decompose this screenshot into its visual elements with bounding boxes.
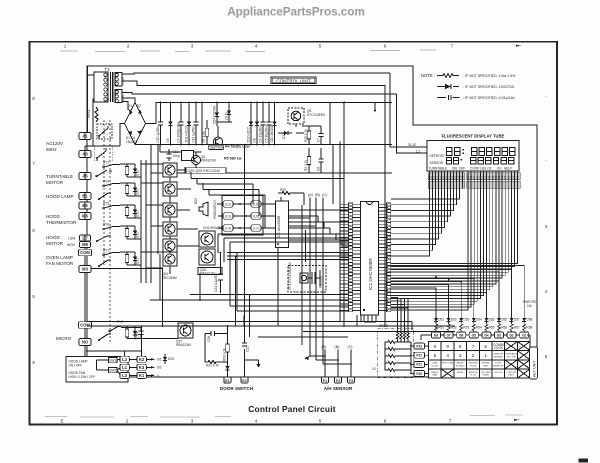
svg-text:D12: D12 [282, 133, 286, 139]
terminal NO [79, 338, 91, 345]
tube pin number labels [428, 175, 520, 179]
svg-text:CLOCK: CLOCK [495, 372, 503, 374]
svg-text:TIME: TIME [432, 363, 438, 365]
switch SW2 [109, 367, 118, 372]
svg-text:DTC114EEK: DTC114EEK [307, 113, 326, 117]
svg-text:IC1 DAC7808R: IC1 DAC7808R [368, 258, 373, 290]
relay contact micro [99, 334, 111, 340]
svg-text:D58: D58 [526, 318, 532, 322]
page border frame [30, 42, 558, 425]
terminal E2 [241, 377, 248, 383]
wire A3 to transformer bottom [85, 99, 94, 150]
svg-text:VRS1: VRS1 [87, 109, 91, 118]
svg-text:P22: P22 [416, 354, 422, 358]
capacitor C5 [265, 103, 272, 145]
svg-text:PW CLK: PW CLK [319, 275, 323, 288]
diode D26 on E1 line [225, 366, 229, 370]
svg-text:HELP: HELP [508, 375, 514, 377]
scan artifact dashes top [60, 50, 436, 52]
svg-text:FLUORESCENT DISPLAY TUBE: FLUORESCENT DISPLAY TUBE [442, 134, 505, 139]
wire RY6 row [115, 226, 141, 239]
svg-text:R58: R58 [526, 326, 532, 330]
frame ruler tick marks right [545, 94, 548, 359]
svg-text:HOOD: HOOD [46, 235, 60, 240]
resistor at RY5 row [125, 205, 129, 218]
key unit label [530, 347, 538, 379]
capacitor C22 on E2 line [242, 145, 250, 377]
terminal A3 [79, 150, 91, 157]
svg-text:D2: D2 [137, 104, 141, 108]
svg-text:F1: F1 [323, 379, 327, 383]
diode D19 [133, 164, 140, 177]
svg-text:10: 10 [372, 367, 376, 371]
switch SW1 [109, 357, 118, 362]
resistor R9 [304, 148, 311, 173]
svg-text:R53: R53 [463, 326, 469, 330]
capacitor C28 [205, 331, 221, 342]
svg-text:6: 6 [484, 344, 487, 349]
svg-text:2: 2 [472, 353, 475, 358]
svg-text:COOK: COOK [495, 363, 502, 365]
door loop wires [205, 326, 228, 377]
resistor at RY4 row [125, 183, 129, 196]
diode D23 [133, 252, 140, 265]
svg-text:E2: E2 [242, 379, 246, 383]
control unit label box [271, 77, 316, 84]
svg-text:A/H SENSOR: A/H SENSOR [324, 386, 353, 391]
relay contact hood lamp [99, 193, 111, 199]
svg-text:Q20-Q25 KRC101M: Q20-Q25 KRC101M [188, 169, 220, 173]
transistor Q28 [199, 226, 225, 247]
svg-text:KRA101M: KRA101M [200, 272, 215, 276]
svg-text:G3: G3 [497, 334, 501, 338]
svg-text:: IF NOT SPECIFIED, 1SS270A: : IF NOT SPECIFIED, 1SS270A [463, 85, 514, 89]
key matrix grid [429, 342, 531, 379]
buzzer BZ2 [194, 198, 217, 219]
svg-text:D54: D54 [476, 318, 482, 322]
terminal A5 [79, 172, 91, 179]
svg-text:C11 1µ/50v: C11 1µ/50v [192, 126, 196, 143]
svg-text:RY5: RY5 [103, 202, 109, 206]
svg-text:D22: D22 [136, 232, 140, 238]
switch terminal L1 [120, 364, 130, 370]
svg-text:CF1 CST4.00MGW: CF1 CST4.00MGW [288, 262, 292, 290]
svg-text:(L6): (L6) [253, 214, 259, 218]
svg-text:D10 1N4003: D10 1N4003 [270, 124, 274, 142]
svg-text:ZD4 1S270A: ZD4 1S270A [213, 105, 217, 124]
svg-text:SW1: SW1 [109, 359, 116, 363]
wire A1 to transformer [85, 66, 94, 132]
svg-text:COM: COM [80, 323, 90, 328]
svg-text:COM: COM [80, 250, 90, 255]
terminal B3 [79, 202, 91, 209]
svg-text:BAR: BAR [433, 374, 438, 377]
resistor at RY6 row [125, 226, 129, 239]
wires P terminals left [421, 335, 432, 340]
svg-text:0: 0 [157, 374, 159, 378]
diode D9 [166, 103, 173, 145]
svg-text:PLUS: PLUS [470, 375, 476, 377]
svg-text:9: 9 [446, 344, 449, 349]
svg-text:R9 4.7k: R9 4.7k [304, 160, 308, 171]
svg-text:AGE: AGE [483, 365, 488, 368]
svg-text:KEY UNIT: KEY UNIT [533, 360, 537, 377]
svg-text:(L7): (L7) [253, 226, 259, 230]
terminal F3 [348, 377, 355, 383]
svg-text:L1: L1 [122, 365, 128, 370]
diode D25 [163, 354, 174, 364]
wires right pins to CR&B verticals [391, 298, 408, 309]
svg-text:HOOD: HOOD [46, 214, 60, 219]
diode D22 [133, 226, 140, 239]
terminal A1 [79, 132, 91, 139]
svg-text:G6: G6 [459, 334, 463, 338]
terminal M5 [79, 212, 91, 219]
svg-text:D52: D52 [451, 318, 457, 322]
capacitor C9 electrolytic [177, 103, 184, 145]
frame ruler tick marks left [32, 96, 35, 365]
svg-text:C4 13µ/20v: C4 13µ/20v [259, 126, 263, 143]
svg-text:KRC243M: KRC243M [162, 276, 177, 280]
svg-text:R20 4.7k: R20 4.7k [222, 348, 226, 361]
svg-text:FAN MOTOR: FAN MOTOR [46, 261, 74, 266]
svg-text:C21 0.1µ/50v: C21 0.1µ/50v [214, 273, 218, 292]
terminal M3 [79, 265, 91, 272]
IC1 right pin numbers [379, 203, 391, 312]
svg-text:THERMISTOR: THERMISTOR [46, 220, 77, 225]
svg-text:REHEAT: REHEAT [494, 355, 503, 358]
resistor R22 micro row [125, 328, 129, 339]
svg-text:HELP: HELP [504, 167, 512, 171]
transistor Q3 KRA101M [182, 150, 216, 164]
capacitor C11 [192, 103, 199, 145]
svg-text:31,32: 31,32 [408, 143, 416, 147]
IC U1 IC1 DAC7808R body [361, 202, 379, 316]
transistor Q22 [163, 203, 177, 217]
svg-text:1,2: 1,2 [416, 150, 421, 154]
svg-text:BEVER-: BEVER- [482, 363, 490, 365]
connector L7 [251, 225, 261, 231]
svg-text:LOW: LOW [68, 237, 75, 241]
zener ZD2 [247, 103, 254, 145]
svg-text:M9: M9 [82, 242, 88, 247]
svg-text:DEFROST: DEFROST [430, 154, 445, 158]
svg-text:KITCHEN: KITCHEN [481, 372, 491, 374]
resonator CF1 CST4.00MGW [288, 262, 326, 292]
svg-text:R52: R52 [451, 326, 457, 330]
svg-text:C22: C22 [246, 346, 250, 352]
svg-text:4: 4 [446, 353, 449, 358]
switch terminal K2 [137, 356, 147, 362]
svg-text:PIZZA: PIZZA [470, 365, 477, 368]
vertical wire x344 [330, 103, 375, 205]
terminal COM2 [79, 322, 92, 329]
label Q20-Q25 KRC101M [186, 168, 226, 174]
resistor R10 [304, 126, 311, 144]
svg-text:K2: K2 [139, 357, 145, 362]
stub diode near E2 [245, 360, 261, 368]
resistor R30 above IC2 [278, 188, 294, 195]
wire transformer secondary to filament rails [122, 73, 397, 94]
svg-text:COOK: COOK [432, 366, 439, 368]
diode D21 [133, 205, 140, 218]
svg-text:COOK: COOK [494, 346, 504, 350]
diode D8 [253, 103, 260, 145]
connector L2 [223, 201, 233, 207]
left terminal chain wire [84, 132, 86, 357]
svg-text:D1: D1 [128, 104, 132, 108]
terminal D7 [80, 235, 91, 241]
wire relay rows to transistors [141, 164, 163, 268]
svg-text:G1: G1 [522, 334, 526, 338]
switch terminal K1 [137, 372, 147, 378]
svg-text:RY4: RY4 [103, 180, 109, 184]
terminal B1 [79, 192, 91, 199]
switch terminal L3 [120, 372, 130, 378]
svg-text:C5 10µ/50v: C5 10µ/50v [265, 126, 269, 143]
svg-text:MOTOR: MOTOR [46, 241, 64, 246]
svg-text:F2: F2 [336, 379, 340, 383]
capacitor C25 micro row [139, 328, 144, 339]
svg-text:AppliancePartsPros.com: AppliancePartsPros.com [227, 5, 364, 19]
capacitor C7 [317, 126, 324, 144]
svg-text:3: 3 [459, 353, 462, 358]
transistor Q23 [163, 222, 177, 236]
svg-text:8: 8 [459, 344, 462, 349]
wires IC2 right to IC1 [289, 210, 349, 246]
transistor Q1 2SB879 [208, 137, 224, 150]
svg-text:R54: R54 [476, 326, 482, 330]
wire bus mid verticals [160, 142, 412, 346]
svg-text:MINUTE: MINUTE [469, 372, 478, 374]
tube digits row defrost [447, 148, 516, 156]
transformer T1 primary winding [94, 72, 108, 102]
svg-text:POTATO: POTATO [456, 365, 465, 368]
terminal F1 [322, 377, 329, 383]
relay RY2 [108, 320, 123, 332]
wire transistor column drops [170, 170, 199, 274]
svg-text:D53: D53 [463, 318, 469, 322]
diode ZD4 [213, 103, 220, 127]
svg-text:1N4003: 1N4003 [126, 140, 137, 144]
transformer T1 secondary winding lower [115, 90, 125, 103]
wires Q2/Q3 area [160, 145, 202, 168]
fluorescent display tube box [427, 141, 519, 172]
svg-text:G7: G7 [446, 334, 450, 338]
svg-text:G5: G5 [472, 334, 476, 338]
svg-text:BZ2: BZ2 [194, 198, 198, 204]
connector L5 [251, 201, 261, 207]
svg-text:SENSOR: SENSOR [430, 161, 444, 165]
svg-text:L2: L2 [122, 357, 128, 362]
relay RY5 [102, 202, 115, 209]
svg-text:HOOD LAMP: HOOD LAMP [46, 194, 74, 199]
svg-text:(L2): (L2) [225, 202, 231, 206]
svg-text:D21: D21 [136, 211, 140, 217]
wire secondary lower to bridge [93, 98, 135, 146]
svg-text:(C): (C) [322, 193, 327, 197]
svg-text:ZD2 HZC2: ZD2 HZC2 [247, 127, 251, 142]
svg-text:KRA223M: KRA223M [176, 343, 191, 347]
wire bundle key matrix columns [391, 266, 524, 316]
key text row4 [431, 371, 516, 377]
relay contact RY8 dashed box [97, 124, 112, 139]
svg-text:D9: D9 [166, 138, 170, 142]
relay RY6 [102, 223, 115, 230]
svg-text:0: 0 [434, 344, 437, 349]
wire RY2 row [92, 269, 179, 339]
resistor R7 [202, 120, 209, 145]
varistor VRS1 [87, 107, 98, 122]
svg-text:R5 680 1w: R5 680 1w [224, 157, 242, 161]
switch terminal L2 [120, 356, 130, 362]
terminal M9 [80, 242, 91, 248]
frame ruler tick marks top [64, 44, 521, 49]
op-amp IC2 UA4558R [276, 201, 289, 248]
relay contact oven lamp [99, 260, 111, 266]
key matrix diode/resistor columns [434, 316, 532, 332]
svg-text:ON: ON [452, 167, 457, 171]
svg-text:SENSOR: SENSOR [494, 354, 504, 356]
resistor R20 vertical [222, 334, 229, 362]
transistor Q21 [163, 182, 177, 196]
diode D13 [225, 103, 232, 123]
svg-text:R56: R56 [501, 326, 507, 330]
svg-text:(C): (C) [348, 345, 353, 349]
svg-text:KRA101M: KRA101M [201, 159, 216, 163]
svg-text:DEFROST: DEFROST [493, 366, 504, 368]
svg-text:D8: D8 [253, 138, 257, 142]
diode bridge D1-D4 diamond [125, 103, 146, 145]
svg-text:D55: D55 [489, 318, 495, 322]
svg-text:C28: C28 [207, 336, 211, 342]
svg-text:OVEN LAMP: OVEN LAMP [46, 255, 73, 260]
key digits row2 [434, 353, 518, 359]
svg-text:RY6: RY6 [103, 223, 109, 227]
transistor Q5 [288, 108, 326, 124]
svg-text:(L5): (L5) [253, 202, 259, 206]
svg-text:ON / OFF: ON / OFF [506, 356, 516, 358]
key matrix P terminals [410, 343, 429, 376]
svg-text:OFF: OFF [459, 167, 465, 171]
svg-text:R7 1.5k: R7 1.5k [202, 131, 206, 142]
tube pin strokes through labels [430, 178, 518, 188]
wire bundle tube group1 to IC1 [391, 188, 460, 256]
relay linkage dashed lines [104, 120, 110, 344]
wire bundle tube group2 to IC1 [391, 188, 518, 310]
svg-text:(L4): (L4) [225, 226, 231, 230]
svg-text:IC2 UA4558R: IC2 UA4558R [277, 215, 281, 238]
wire Q5 collector rails [145, 124, 392, 173]
junction dots key columns [435, 276, 462, 283]
terminal F2 [335, 377, 342, 383]
wires IC2 top [281, 193, 304, 205]
resistor network CR&B [372, 298, 414, 378]
wire RY5 row [115, 205, 141, 218]
svg-text:COOK LBS OZ: COOK LBS OZ [470, 167, 492, 171]
wires connector group [217, 204, 275, 228]
diode D20 [133, 183, 140, 196]
transistor Q20 [163, 163, 177, 177]
corner registration mark [579, 459, 589, 463]
label Q26 KRA101M [198, 268, 222, 276]
tube pin stubs group1 [430, 171, 463, 178]
relay RY3 [102, 161, 115, 168]
svg-text:D57: D57 [514, 318, 520, 322]
svg-text:G8: G8 [434, 334, 438, 338]
svg-text:D23: D23 [136, 258, 140, 264]
svg-text:MORE: MORE [457, 372, 464, 374]
svg-text:Control Panel Circuit: Control Panel Circuit [248, 404, 336, 414]
svg-text:NOTE :: NOTE : [421, 73, 435, 78]
svg-text:G4: G4 [484, 334, 488, 338]
svg-text:R30: R30 [280, 188, 286, 192]
wire ZD4 to Q1 [217, 122, 232, 137]
svg-text:C9 1000µ/16v: C9 1000µ/16v [177, 122, 181, 142]
zener ZD1 [185, 103, 192, 145]
svg-text:R57: R57 [514, 326, 520, 330]
svg-text:D20: D20 [136, 189, 140, 195]
bridge output rails [135, 103, 392, 145]
svg-text:CUSTOM: CUSTOM [506, 372, 516, 374]
svg-text:RY3: RY3 [103, 161, 109, 165]
svg-text:D56: D56 [501, 318, 507, 322]
terminal E1 [224, 377, 231, 383]
key matrix G terminal row [423, 332, 531, 341]
svg-text:F3: F3 [349, 379, 353, 383]
rail nodes power column [160, 102, 230, 146]
capacitor C4 [259, 103, 266, 145]
key matrix hatched cells [441, 342, 530, 379]
svg-text:R21 4.7k: R21 4.7k [206, 364, 219, 368]
svg-text:R10 4.7k: R10 4.7k [304, 129, 308, 142]
svg-text:P23: P23 [416, 344, 422, 348]
svg-text:: IF NOT SPECIFIED, 0.01µ/16v: : IF NOT SPECIFIED, 0.01µ/16v [463, 96, 515, 100]
svg-text:L3: L3 [122, 373, 128, 378]
svg-text:E1: E1 [225, 379, 229, 383]
svg-text:POPCORN: POPCORN [442, 363, 453, 365]
svg-text:5: 5 [434, 353, 437, 358]
svg-text:ON / OFF: ON / OFF [69, 364, 83, 368]
IC1 bottom pins down [364, 315, 376, 322]
wire stubs into IC1 left pins [340, 204, 349, 310]
svg-text:T1: T1 [105, 67, 111, 72]
tube digits row sensor [447, 158, 514, 164]
IC1 left pin numbers [349, 203, 361, 312]
svg-text:R4 5Ω(M) 1/2w: R4 5Ω(M) 1/2w [225, 144, 250, 148]
resistor at RY1 row [125, 252, 129, 265]
terminal COM1 [79, 249, 92, 256]
svg-text:MOTOR: MOTOR [46, 180, 64, 185]
A/H sensor wires [310, 350, 351, 377]
svg-text:(L3): (L3) [225, 214, 231, 218]
svg-text:K1: K1 [139, 373, 145, 378]
transformer T1 secondary winding upper [115, 73, 125, 87]
wire RY4 row [115, 183, 141, 196]
svg-text:(B): (B) [315, 193, 320, 197]
svg-text:0/1: 0/1 [157, 358, 162, 362]
transistor Q27 KRA223M [176, 323, 193, 347]
svg-text:(B): (B) [335, 345, 340, 349]
svg-text:K3: K3 [139, 365, 145, 370]
diode D10 [270, 103, 277, 145]
hood lamp/fan switch box [66, 357, 128, 383]
resistor R21 horizontal [205, 361, 220, 368]
key digits row1 [434, 343, 504, 350]
connector L3 [223, 213, 233, 219]
svg-text:7: 7 [472, 344, 475, 349]
diode D12 [278, 131, 292, 139]
